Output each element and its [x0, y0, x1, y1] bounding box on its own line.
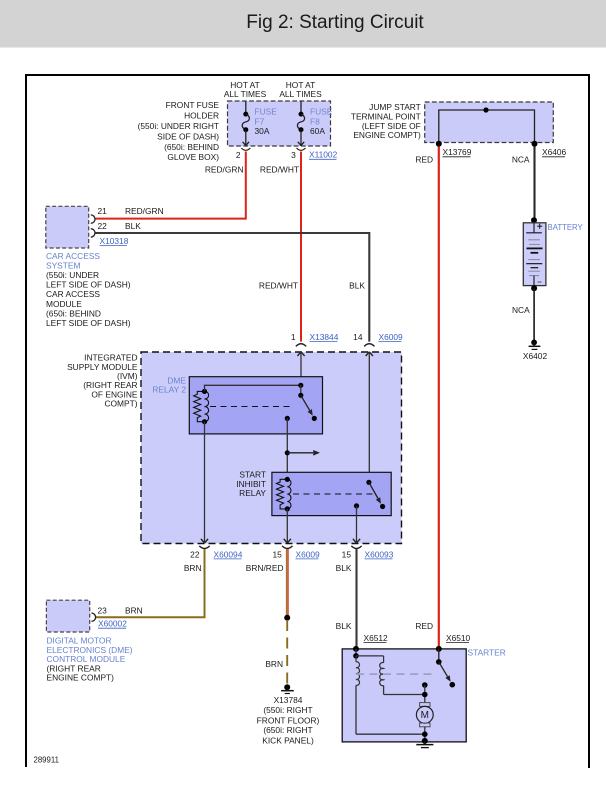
svg-text:ALL TIMES: ALL TIMES [279, 89, 322, 99]
svg-text:3: 3 [291, 150, 296, 160]
svg-text:ALL TIMES: ALL TIMES [224, 89, 267, 99]
svg-text:(550i: UNDER: (550i: UNDER [46, 270, 99, 280]
svg-text:Fig 2: Starting Circuit: Fig 2: Starting Circuit [246, 12, 424, 33]
wire BRN/RED from IVM pin 15 down [287, 549, 289, 618]
fuse F7 30A [242, 101, 277, 146]
svg-text:X6009: X6009 [296, 549, 321, 559]
wire BLK from IVM pin 15 X60093 to starter X6512 [355, 549, 357, 647]
svg-text:MODULE: MODULE [46, 299, 82, 309]
svg-text:BRN: BRN [184, 563, 202, 573]
svg-text:X6402: X6402 [523, 351, 548, 361]
svg-text:BLK: BLK [125, 221, 141, 231]
car access system module box [46, 206, 89, 248]
label X13784 location block [257, 695, 320, 746]
svg-text:(650i: BEHIND: (650i: BEHIND [46, 308, 101, 318]
battery [523, 217, 546, 285]
svg-text:KICK PANEL): KICK PANEL) [262, 735, 314, 745]
svg-text:RED/WHT: RED/WHT [259, 281, 298, 291]
wire NCA from X6406 to battery [533, 147, 535, 219]
label X6510 [446, 633, 471, 643]
svg-text:FUSE: FUSE [255, 107, 278, 117]
label RED/WHT (upper) [260, 164, 299, 174]
terminal X6406 [532, 141, 567, 157]
svg-text:M: M [421, 710, 429, 721]
svg-text:X60094: X60094 [214, 549, 243, 559]
svg-text:22: 22 [190, 549, 200, 559]
label BLK above starter [336, 621, 352, 631]
svg-text:X11002: X11002 [309, 150, 338, 160]
svg-text:RED: RED [415, 621, 433, 631]
title bar [0, 0, 606, 48]
label BATTERY [548, 223, 584, 232]
svg-text:LEFT SIDE OF DASH): LEFT SIDE OF DASH) [46, 318, 131, 328]
svg-text:BLK: BLK [349, 281, 365, 291]
svg-text:1: 1 [291, 332, 296, 342]
starter motor branch node [422, 682, 428, 703]
terminal X6512 node [353, 646, 359, 652]
label BRN at pin 23 [125, 606, 143, 616]
label RED/GRN at pin 21 [125, 206, 164, 216]
svg-text:15: 15 [272, 549, 282, 559]
connector pin 23 X60002 [91, 606, 127, 629]
svg-text:X60002: X60002 [98, 619, 127, 629]
label BRN under pin 22 [184, 563, 202, 573]
label NCA (upper) [512, 154, 530, 164]
label DIGITAL MOTOR ELECTRONICS block [47, 636, 133, 683]
svg-text:60A: 60A [310, 126, 325, 136]
label INTEGRATED SUPPLY MODULE [67, 353, 138, 409]
svg-text:RELAY: RELAY [239, 488, 266, 498]
ground X6402 [523, 340, 548, 362]
ground X13784 [281, 684, 294, 693]
fuse F8 60A [297, 101, 332, 146]
connector pin 21 [91, 206, 107, 224]
svg-text:GLOVE BOX): GLOVE BOX) [167, 152, 219, 162]
svg-text:BRN/RED: BRN/RED [246, 563, 284, 573]
connector pin 3 / X11002 [291, 148, 337, 160]
svg-text:BRN: BRN [265, 659, 283, 669]
start inhibit relay mechanical link (dashed) [293, 493, 373, 495]
svg-text:HOLDER: HOLDER [184, 111, 219, 121]
DME control module box [46, 600, 89, 632]
wire coil top to pin 1 node [205, 383, 304, 392]
svg-text:RED/WHT: RED/WHT [260, 164, 299, 174]
svg-text:(550i: UNDER RIGHT: (550i: UNDER RIGHT [138, 121, 219, 131]
starter mechanical link (dashed gray) [356, 673, 436, 675]
svg-text:30A: 30A [255, 126, 270, 136]
starter motor M [416, 703, 433, 741]
front fuse holder box [228, 101, 331, 146]
svg-text:BATTERY: BATTERY [548, 223, 584, 232]
integrated supply module (IVM) box [141, 352, 402, 544]
DME relay 2 box [189, 377, 322, 434]
connector pin 2 of fuse holder [236, 148, 250, 160]
svg-text:X60093: X60093 [365, 549, 394, 559]
start inhibit relay coil [277, 477, 291, 512]
svg-text:X13769: X13769 [443, 147, 472, 157]
wire RED/GRN from fuse 2 to car access pin 21 [96, 152, 246, 219]
svg-text:BLK: BLK [336, 621, 352, 631]
label BLK (mid) [349, 281, 365, 291]
internal wire of jump start terminal [439, 107, 535, 143]
starter coil 1 (pull-in winding) [356, 656, 425, 734]
svg-text:(550i: RIGHT: (550i: RIGHT [263, 705, 312, 715]
svg-text:(650i: RIGHT: (650i: RIGHT [263, 725, 312, 735]
svg-text:FRONT FLOOR): FRONT FLOOR) [257, 715, 320, 725]
svg-text:FUSE: FUSE [310, 107, 333, 117]
svg-text:RED: RED [415, 154, 433, 164]
label CAR ACCESS SYSTEM block [46, 251, 131, 328]
label START INHIBIT RELAY [236, 470, 266, 498]
label JUMP START TERMINAL POINT [351, 102, 421, 140]
jump start terminal point box [425, 102, 554, 143]
svg-text:RED/GRN: RED/GRN [125, 206, 164, 216]
dashed BRN wire to X13784 [286, 620, 288, 685]
IVM pin 1 X13844 connector [291, 332, 339, 385]
IVM pin 22 X60094 connector [190, 422, 243, 560]
label DME RELAY 2 [152, 375, 186, 394]
wire RED/WHT from fuse 3 to IVM pin 1 [300, 152, 302, 342]
wire BLK from pin 22 to IVM pin 14 [95, 233, 369, 342]
svg-text:NCA: NCA [512, 305, 530, 315]
label BLK at pin 22 [125, 221, 141, 231]
label HOT AT ALL TIMES (right) [279, 80, 322, 99]
DME relay 2 mechanical link (dashed) [210, 406, 293, 408]
svg-text:RED/GRN: RED/GRN [205, 164, 244, 174]
svg-text:X13844: X13844 [310, 332, 339, 342]
branch arrow node [285, 450, 320, 456]
starter ground [416, 738, 433, 748]
label BRN (dashed wire) [265, 659, 283, 669]
svg-text:BRN: BRN [125, 606, 143, 616]
starter box [342, 649, 466, 742]
IVM pin 15 X60093 connector [342, 506, 394, 559]
svg-text:X10318: X10318 [100, 236, 129, 246]
wire RED from X13769 down to starter X6510 [438, 147, 440, 648]
svg-text:X6510: X6510 [446, 633, 471, 643]
label BRN/RED under pin 15 [246, 563, 284, 573]
svg-text:SIDE OF DASH): SIDE OF DASH) [157, 131, 219, 141]
terminal X6510 node [436, 646, 442, 652]
label RED/GRN [205, 164, 244, 174]
svg-text:CAR ACCESS: CAR ACCESS [46, 251, 100, 261]
label HOT AT ALL TIMES (left) [224, 80, 267, 99]
IVM pin 15 X6009 connector [272, 509, 320, 559]
start inhibit relay box [272, 472, 391, 515]
start inhibit relay switch [354, 480, 385, 509]
junction node on BRN wire [284, 615, 290, 621]
svg-text:22: 22 [98, 221, 108, 231]
svg-text:CAR ACCESS: CAR ACCESS [46, 289, 100, 299]
svg-text:289911: 289911 [34, 756, 59, 765]
IVM pin 14 X6009 connector [353, 332, 403, 482]
svg-text:2: 2 [236, 150, 241, 160]
footer document number 289911 [34, 756, 59, 765]
svg-text:23: 23 [98, 606, 108, 616]
svg-text:14: 14 [353, 332, 363, 342]
svg-text:FRONT FUSE: FRONT FUSE [166, 100, 220, 110]
svg-text:SYSTEM: SYSTEM [46, 260, 80, 270]
svg-text:21: 21 [98, 206, 108, 216]
starter solenoid wires and coils [353, 649, 383, 659]
svg-text:15: 15 [342, 549, 352, 559]
svg-text:X6009: X6009 [379, 332, 404, 342]
label RED (jump start wire) [415, 154, 433, 164]
svg-text:X6406: X6406 [542, 147, 567, 157]
svg-text:ENGINE COMPT): ENGINE COMPT) [47, 673, 115, 683]
svg-text:STARTER: STARTER [468, 647, 506, 657]
label BLK under pin 15 X60093 [336, 563, 352, 573]
svg-text:LEFT SIDE OF DASH): LEFT SIDE OF DASH) [46, 280, 131, 290]
DME relay 2 coil [194, 389, 209, 425]
label FRONT FUSE HOLDER [138, 100, 220, 162]
label X6512 [364, 633, 389, 643]
svg-text:NCA: NCA [512, 154, 530, 164]
wire DME relay output down to start inhibit coil [286, 418, 288, 479]
svg-text:BLK: BLK [336, 563, 352, 573]
starter solenoid switch [436, 649, 455, 688]
starter coil 2 (hold-in winding) [380, 656, 425, 695]
label RED above starter [415, 621, 433, 631]
wire NCA battery to ground X6402 [531, 285, 537, 342]
wire BRN from IVM pin 22 to DME pin 23 [95, 549, 204, 617]
terminal X13769 [436, 141, 472, 157]
svg-text:RELAY 2: RELAY 2 [152, 385, 186, 395]
svg-text:COMPT): COMPT) [104, 399, 137, 409]
connector pin 22 [91, 221, 107, 237]
label STARTER [468, 647, 506, 657]
label X10318 [100, 236, 129, 246]
svg-text:(650i: BEHIND: (650i: BEHIND [164, 142, 219, 152]
svg-text:X6512: X6512 [364, 633, 389, 643]
label RED/WHT (mid) [259, 281, 298, 291]
DME relay 2 switch [285, 385, 317, 421]
label NCA (lower) [512, 305, 530, 315]
svg-text:ENGINE COMPT): ENGINE COMPT) [353, 130, 421, 140]
svg-text:X13784: X13784 [274, 695, 303, 705]
